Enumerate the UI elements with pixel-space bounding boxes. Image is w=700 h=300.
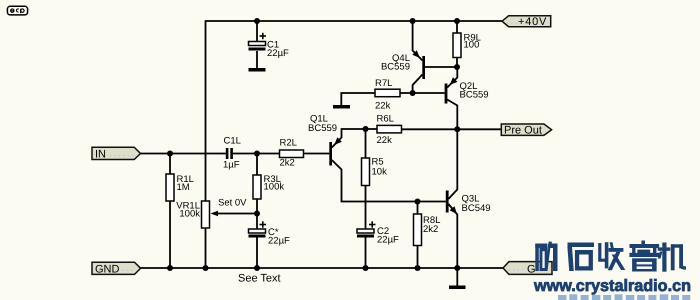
wire left vertical rail to VR1L top [205, 20, 207, 201]
svg-text:100: 100 [464, 40, 480, 51]
svg-text:100k: 100k [264, 182, 285, 193]
wire R8L bottom lead [417, 246, 419, 269]
node dot C1L/R3L [254, 151, 260, 157]
wire R5 top lead [365, 129, 367, 158]
node dot gnd VR1L [203, 265, 209, 271]
node dot R6L/R5 [363, 126, 369, 132]
ground under C1 [249, 68, 266, 72]
svg-text:BC549: BC549 [462, 203, 491, 214]
wire R9L bottom lead [456, 58, 458, 68]
capacitor C2 [357, 221, 399, 245]
char yin [629, 241, 659, 272]
svg-text:BC559: BC559 [460, 90, 489, 101]
svg-text:1µF: 1µF [223, 160, 240, 171]
wire Q2L emitter to R9L node [447, 67, 457, 88]
watermark clipped light blue row [558, 294, 690, 300]
watermark big chinese text [535, 241, 686, 272]
wire Q1L collector path [332, 160, 446, 202]
potentiometer VR1L [176, 201, 218, 229]
wire R7L left lead to ground [341, 93, 375, 105]
node dot R9L/Q4L base [454, 64, 460, 70]
wire Q4L collector to R7L node [413, 75, 423, 94]
node dot gnd R1L [167, 265, 173, 271]
svg-text:+40V: +40V [518, 16, 547, 28]
wire R5 bottom lead [365, 186, 367, 202]
wire top rail to +40V [206, 20, 503, 22]
char kuang [535, 242, 557, 271]
connector Pre Out [501, 124, 551, 137]
transistor Q2L [445, 77, 489, 103]
resistor R8L [414, 214, 441, 246]
wire C1L right to R2L [233, 153, 280, 155]
svg-text:2k2: 2k2 [280, 158, 295, 169]
wire R7L right to Q2L base [400, 92, 445, 94]
node dot R8L top [415, 199, 421, 205]
wire R1L bottom lead [169, 201, 171, 268]
capacitor C1 [249, 33, 290, 59]
svg-text:22µF: 22µF [267, 48, 289, 59]
wire ground rail [141, 267, 504, 269]
node dot rail C1 [254, 18, 260, 24]
ground at R7L [333, 105, 350, 109]
wire Q4L base to R9L node [425, 66, 457, 68]
node dot gnd C2 [363, 265, 369, 271]
wire C2 bottom lead [365, 238, 367, 269]
resistor R9L [453, 33, 481, 58]
wire R9L top lead [456, 21, 458, 33]
svg-text:IN: IN [95, 149, 106, 161]
wire Q3L emitter down to ground rail [448, 204, 457, 268]
wire R6L right to PreOut junction [402, 128, 502, 130]
connector GND left [92, 262, 141, 275]
node dot R7L/Q4L collector [410, 90, 416, 96]
connector IN [92, 147, 141, 160]
svg-text:10k: 10k [372, 167, 388, 178]
wire VR1L wiper line [213, 213, 257, 215]
svg-text:Set 0V: Set 0V [218, 198, 247, 209]
transistor Q3L [446, 191, 491, 215]
svg-text:22k: 22k [375, 101, 391, 112]
svg-text:R6L: R6L [377, 114, 394, 125]
transistor Q1L [308, 114, 342, 166]
resistor R2L [280, 138, 304, 169]
svg-text:www.crystalradio.cn: www.crystalradio.cn [533, 277, 691, 295]
wire C1 bottom lead [256, 51, 258, 68]
node dot rail R9L [454, 18, 460, 24]
wire C1 top lead [256, 21, 258, 42]
node dot gnd C* [254, 265, 260, 271]
svg-text:100k: 100k [179, 209, 200, 220]
char shi [567, 243, 594, 272]
wire R3L bottom lead [256, 199, 258, 214]
wire VR1L bottom to ground rail [205, 228, 207, 268]
node dot gnd R8L [415, 265, 421, 271]
svg-text:See Text: See Text [238, 273, 281, 285]
node dot gnd Q3L [454, 265, 460, 271]
wire Q4L emitter to rail [413, 21, 423, 61]
svg-text:Pre Out: Pre Out [504, 125, 542, 137]
wire C* top lead [256, 214, 258, 230]
wire IN line [141, 153, 226, 155]
wire R2L to Q1L base [304, 153, 330, 155]
svg-text:22k: 22k [377, 135, 393, 146]
wire Q3L ground stub [456, 268, 458, 286]
ground under Q3L [449, 286, 466, 290]
char shou [598, 242, 625, 270]
wire C2 top lead [365, 202, 367, 230]
esp logo [7, 6, 27, 15]
connector GND right [503, 262, 552, 276]
capacitor C1L [223, 136, 241, 171]
wire Q3L collector up to PreOut node [448, 129, 457, 199]
resistor R7L [375, 78, 400, 112]
connector +40V [502, 16, 551, 29]
transistor Q4L [381, 50, 425, 79]
wire R3L top lead [256, 154, 258, 176]
node dot PreOut [454, 126, 460, 132]
svg-text:22µF: 22µF [377, 235, 399, 246]
node dot IN/R1L [167, 151, 173, 157]
node dot rail Q4L [410, 18, 416, 24]
resistor R3L [253, 174, 284, 199]
svg-text:G: G [527, 263, 536, 275]
resistor R1L [166, 174, 194, 201]
svg-text:GND: GND [95, 263, 120, 275]
svg-text:R2L: R2L [280, 138, 297, 149]
svg-text:R7L: R7L [375, 78, 392, 89]
char ji [658, 243, 686, 272]
wire C* bottom lead [256, 238, 258, 269]
svg-text:1M: 1M [177, 182, 190, 193]
capacitor C* [249, 221, 291, 246]
wire Q1L emitter path to R6L [332, 129, 377, 148]
wire R8L top lead [417, 202, 419, 215]
wire R1L top lead [169, 154, 171, 175]
resistor R6L [377, 114, 402, 147]
resistor R5 [362, 157, 388, 186]
svg-text:BC559: BC559 [381, 62, 410, 73]
svg-text:C1L: C1L [224, 136, 241, 147]
svg-text:2k2: 2k2 [423, 224, 438, 235]
svg-text:22µF: 22µF [268, 236, 290, 247]
node dot R3L/C*/wiper [254, 211, 260, 217]
wire Q2L collector to PreOut node [447, 100, 457, 130]
svg-text:BC559: BC559 [308, 123, 337, 134]
